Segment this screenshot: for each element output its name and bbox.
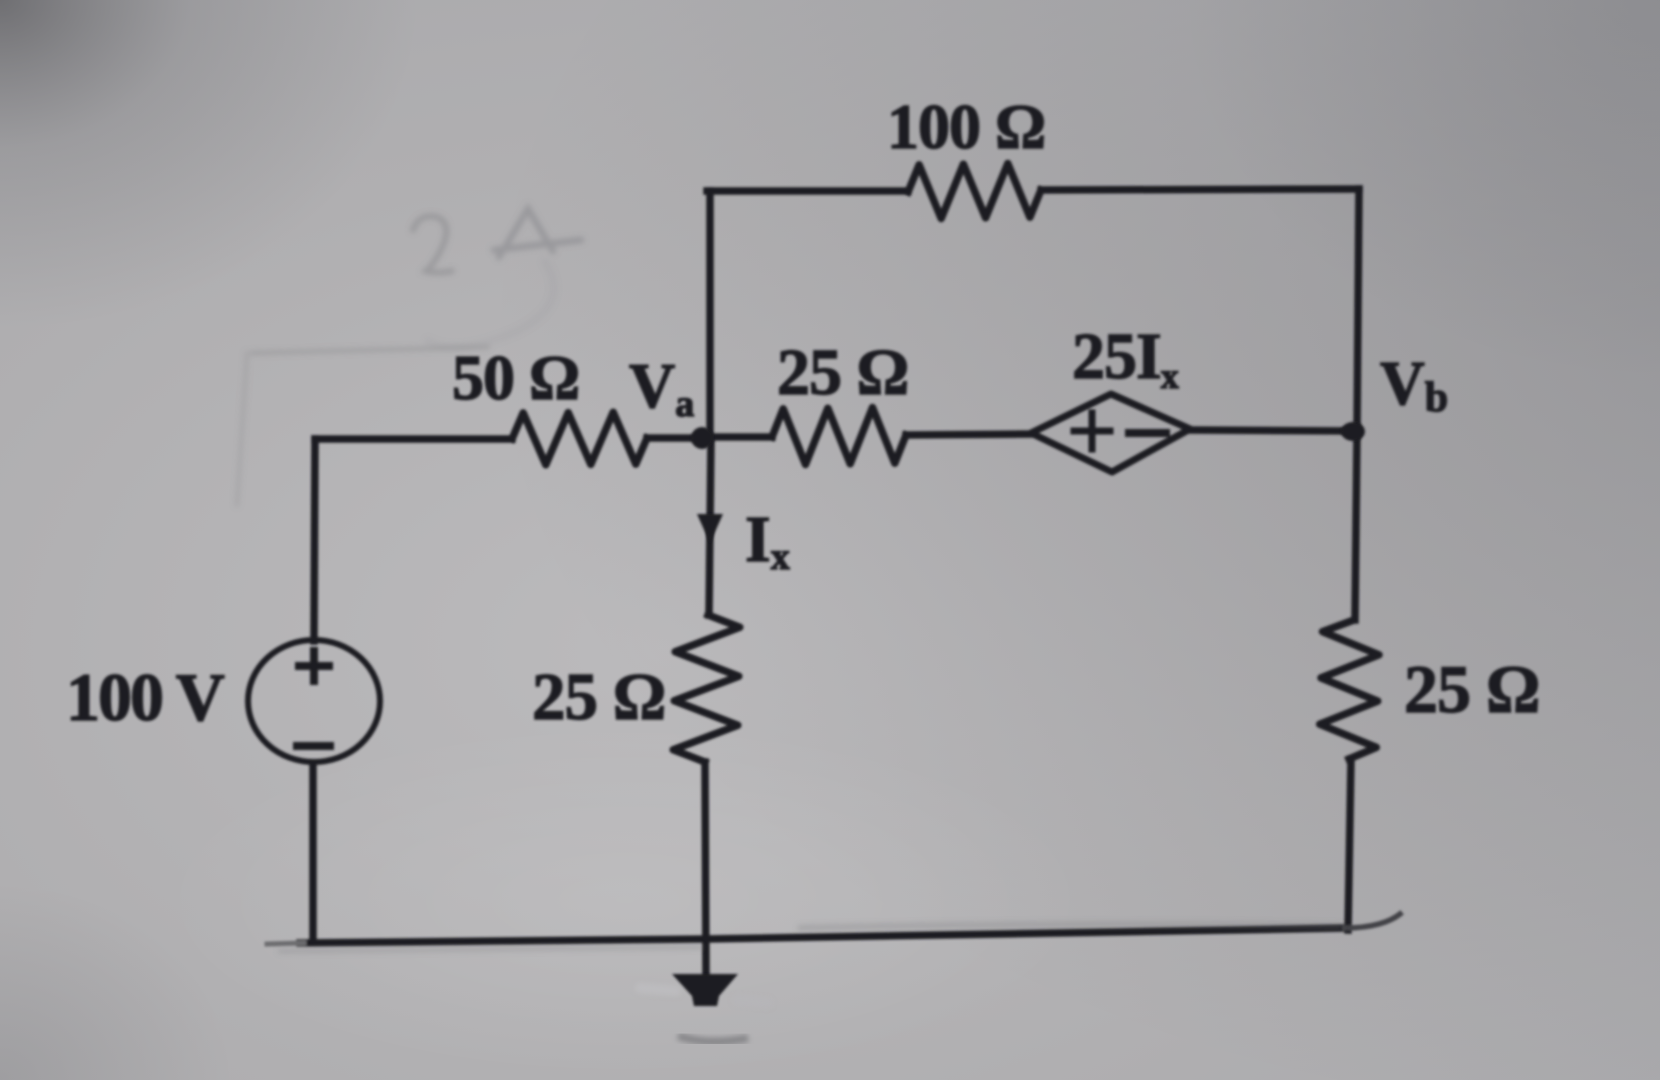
wire: R3 to dependent source — [906, 434, 1033, 435]
svg-text:25 Ω: 25 Ω — [777, 336, 908, 409]
bottom rail gray left tail — [267, 943, 304, 944]
node Va junction dot — [691, 427, 713, 449]
wire: R5 down to bottom rail — [1348, 759, 1351, 930]
resistor R5 (25 ohm, right branch) — [1320, 620, 1379, 759]
svg-text:50 Ω: 50 Ω — [452, 342, 579, 413]
eraser shine right of ground — [737, 1000, 768, 1003]
wire: R4 down to bottom rail and ground stem — [705, 762, 706, 975]
node Vb junction dot — [1341, 422, 1365, 441]
resistor R3 (25 ohm, middle row) — [772, 408, 906, 465]
shadow band above bottom rail (right) — [800, 924, 1340, 928]
bottom rail end hook — [1345, 914, 1400, 928]
resistor R4 (25 ohm, Ix branch) — [673, 615, 740, 762]
pencil mark "A" (triangle) — [494, 209, 581, 257]
svg-text:100 Ω: 100 Ω — [887, 91, 1045, 162]
voltage source V1 plus sign — [299, 651, 329, 681]
svg-text:25 Ω: 25 Ω — [1404, 651, 1539, 727]
ground symbol (filled triangle with tab) — [672, 974, 738, 1006]
pencil smudge curve — [428, 262, 554, 347]
voltage source V1 minus sign — [297, 742, 330, 750]
current arrow Ix (down arrowhead on Va branch) — [697, 514, 723, 543]
pencil mark "2" — [413, 216, 452, 272]
wire: node Va to R3 — [710, 433, 772, 441]
wire: vertical from node Va up to top-left corner — [706, 191, 714, 438]
voltage source V1 (100 V) circle — [248, 640, 380, 762]
wire: top horizontal, left of R1 — [707, 187, 908, 195]
dependent source U1 (diamond, 25Ix) — [1031, 394, 1190, 472]
shadow under bottom rail (left) — [280, 947, 700, 951]
wire: dependent source to node Vb — [1190, 430, 1357, 431]
wire: left vertical, middle row down to source + terminal — [314, 439, 315, 641]
eraser shine left of ground — [640, 988, 676, 991]
resistor R2 (50 ohm) — [512, 412, 647, 465]
wire: right vertical, Vb down to R5 — [1355, 432, 1357, 620]
wire: top horizontal, right of R1 — [1041, 189, 1359, 190]
wire: source - terminal down to bottom rail — [309, 764, 317, 941]
svg-text:100 V: 100 V — [66, 659, 225, 735]
resistor R1 (100 ohm, top) — [908, 164, 1041, 219]
pencil line vertical — [237, 353, 247, 505]
svg-text:25 Ω: 25 Ω — [532, 660, 665, 734]
wire: right vertical, top corner down to node Vb — [1357, 189, 1359, 432]
pencil line horizontal — [252, 347, 488, 353]
bottom rail wire — [300, 928, 1345, 943]
wire: R2 to node Va — [647, 434, 706, 442]
ground symbol lower dash — [678, 1036, 748, 1042]
wire: middle row left segment (to 50 ohm) — [315, 435, 512, 443]
wire: Ix branch, node Va down to R4 — [709, 438, 711, 615]
